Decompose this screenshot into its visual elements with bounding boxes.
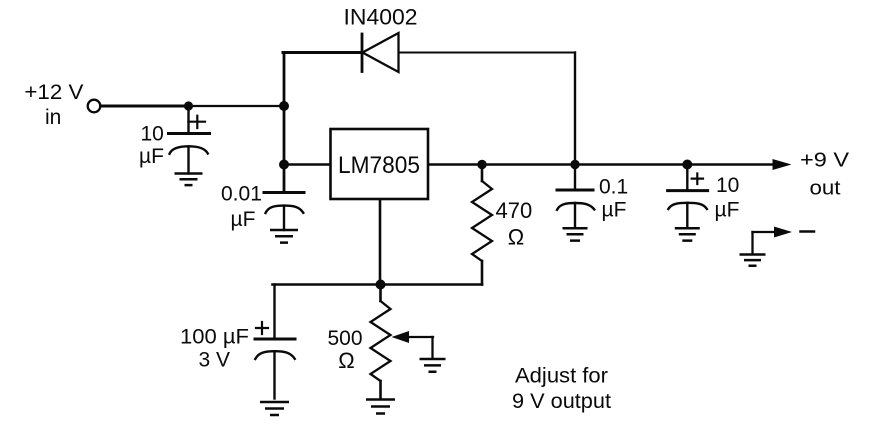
svg-text:0.1: 0.1 (599, 175, 628, 198)
svg-text:in: in (45, 106, 61, 129)
svg-text:10: 10 (141, 123, 164, 146)
svg-text:3 V: 3 V (199, 349, 231, 372)
svg-text:µF: µF (715, 199, 740, 222)
svg-text:µF: µF (139, 145, 164, 168)
svg-text:9 V output: 9 V output (512, 390, 611, 413)
svg-text:500: 500 (328, 327, 363, 350)
svg-text:IN4002: IN4002 (344, 5, 418, 30)
svg-text:Adjust for: Adjust for (515, 365, 608, 388)
svg-text:Ω: Ω (338, 348, 354, 373)
svg-text:100 µF: 100 µF (180, 326, 249, 349)
svg-text:0.01: 0.01 (221, 183, 262, 206)
svg-text:µF: µF (231, 208, 256, 231)
svg-text:+9 V: +9 V (800, 150, 850, 172)
svg-text:10: 10 (716, 174, 739, 197)
svg-text:µF: µF (602, 199, 627, 222)
svg-text:LM7805: LM7805 (338, 152, 420, 179)
svg-text:+12 V: +12 V (24, 81, 83, 104)
svg-text:470: 470 (496, 198, 533, 223)
svg-text:Ω: Ω (508, 225, 524, 250)
svg-text:out: out (810, 178, 841, 200)
